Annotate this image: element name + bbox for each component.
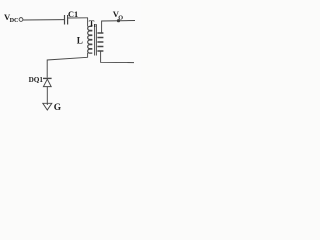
svg-text:DQ1: DQ1	[29, 76, 44, 84]
wire	[68, 17, 88, 19]
wire	[101, 51, 134, 63]
transformer Tr core	[94, 25, 96, 56]
svg-text:O: O	[118, 15, 123, 22]
wire	[87, 18, 89, 27]
wire	[47, 57, 87, 77]
svg-text:DC: DC	[10, 17, 19, 24]
node VDC terminal	[19, 18, 23, 22]
svg-text:G: G	[54, 103, 62, 113]
capacitor C1	[64, 15, 66, 25]
svg-text:C1: C1	[68, 10, 78, 19]
wire	[102, 21, 135, 34]
wire	[23, 19, 64, 21]
inductor L primary winding of transformer	[88, 26, 93, 53]
svg-text:r: r	[94, 22, 97, 29]
wire	[87, 53, 89, 58]
ground G	[43, 103, 52, 110]
transformer Tr secondary winding	[97, 33, 103, 51]
junction dot on Vo wire	[117, 19, 120, 22]
svg-text:L: L	[77, 36, 83, 46]
wire	[46, 87, 48, 105]
diode DQ1	[43, 77, 52, 79]
